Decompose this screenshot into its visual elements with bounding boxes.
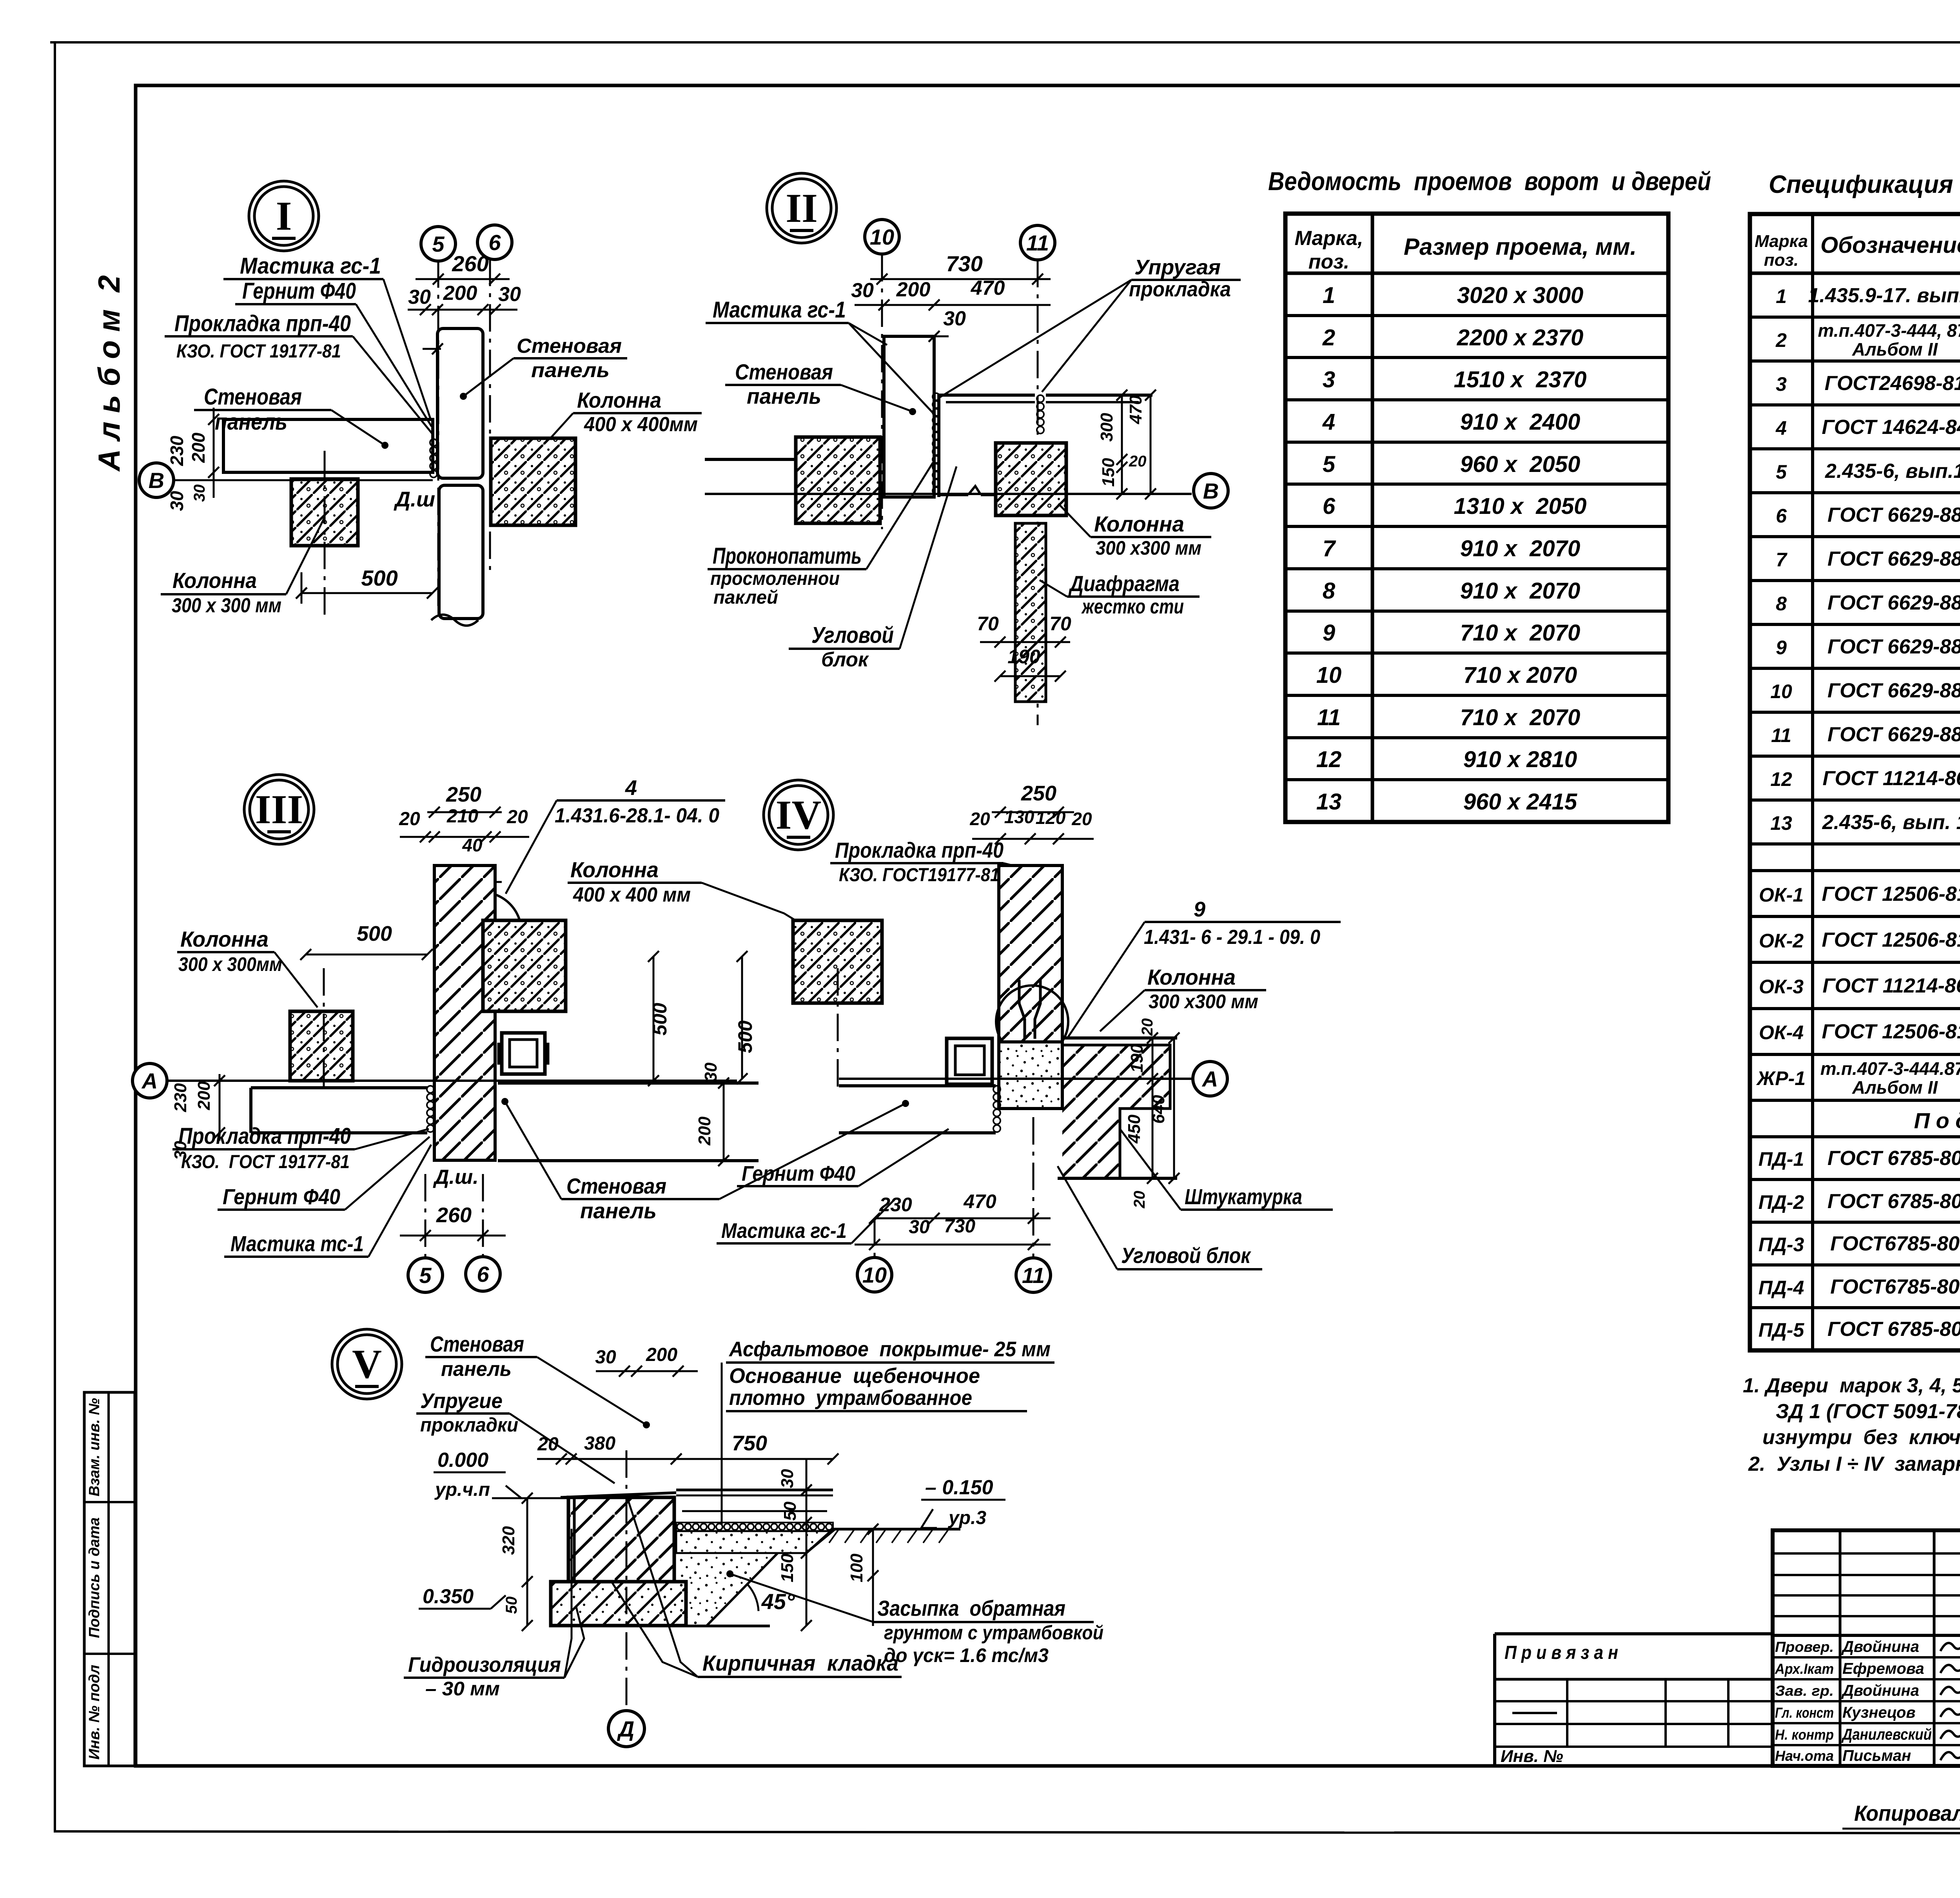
svg-text:200: 200 <box>188 432 209 463</box>
svg-text:960 х 2050: 960 х 2050 <box>1460 452 1580 477</box>
svg-text:т.п.407-3-444.87,: т.п.407-3-444.87, <box>1820 1058 1960 1079</box>
svg-text:ГОСТ 6629-88: ГОСТ 6629-88 <box>1828 723 1960 746</box>
svg-text:Стеновая: Стеновая <box>430 1332 524 1356</box>
axis 6 circle <box>477 225 512 259</box>
svg-text:70: 70 <box>1049 613 1071 635</box>
svg-text:I: I <box>276 193 292 239</box>
svg-text:ОК-2: ОК-2 <box>1759 930 1804 952</box>
svg-text:Гернит Ф40: Гернит Ф40 <box>223 1184 340 1209</box>
svg-text:13: 13 <box>1316 789 1342 815</box>
svg-text:Гернит Ф40: Гернит Ф40 <box>242 278 356 304</box>
axis 5 circle (III bottom) <box>408 1258 443 1292</box>
column 300x300 (I) <box>291 479 358 546</box>
svg-text:паклей: паклей <box>713 587 778 608</box>
ground line right (V) <box>833 1528 960 1531</box>
axis 11 line (II) <box>1037 260 1039 725</box>
svg-text:120: 120 <box>1036 807 1066 828</box>
svg-text:6: 6 <box>477 1262 489 1287</box>
ground level drop (V) <box>806 1529 833 1553</box>
svg-text:Упругие: Упругие <box>420 1389 503 1413</box>
svg-text:ГОСТ 6629-88: ГОСТ 6629-88 <box>1828 635 1960 658</box>
svg-text:Мастика гс-1: Мастика гс-1 <box>721 1219 847 1243</box>
left end dims 230/200/30 (I) <box>213 408 215 498</box>
svg-text:200: 200 <box>896 278 931 301</box>
svg-text:260: 260 <box>436 1203 472 1227</box>
svg-text:плотно утрамбованное: плотно утрамбованное <box>729 1386 972 1410</box>
wall panel horizontal (II) <box>705 458 884 461</box>
svg-text:750: 750 <box>732 1432 767 1455</box>
svg-text:ур.ч.п: ур.ч.п <box>434 1479 490 1500</box>
svg-text:В: В <box>149 468 164 493</box>
axis 10 line (IV) <box>874 1218 876 1257</box>
svg-text:ГОСТ24698-81: ГОСТ24698-81 <box>1825 372 1960 395</box>
svg-text:190: 190 <box>1007 646 1040 668</box>
svg-text:ур.3: ур.3 <box>948 1508 986 1528</box>
svg-text:П о д о к о н н ы е д о с: П о д о к о н н ы е д о с к и <box>1914 1108 1960 1133</box>
svg-text:Письман: Письман <box>1842 1747 1911 1764</box>
concrete fill below panel (IV) <box>999 1042 1062 1109</box>
wall panel horizontal left (III) <box>251 1086 427 1089</box>
svg-text:50: 50 <box>503 1597 520 1614</box>
svg-text:ПД-4: ПД-4 <box>1759 1277 1804 1299</box>
svg-text:4: 4 <box>1322 409 1335 435</box>
svg-text:П р и в я з а н: П р и в я з а н <box>1504 1642 1618 1663</box>
svg-text:Стеновая: Стеновая <box>204 384 302 410</box>
svg-text:Провер.: Провер. <box>1775 1639 1834 1655</box>
svg-text:ПД-1: ПД-1 <box>1759 1148 1804 1170</box>
svg-text:20: 20 <box>399 809 420 829</box>
node marker III <box>244 775 314 844</box>
svg-text:11: 11 <box>1026 230 1049 255</box>
svg-text:ГОСТ 12506-81: ГОСТ 12506-81 <box>1822 883 1960 905</box>
panel joint gasket (III) <box>427 1086 434 1093</box>
svg-text:грунтом с утрамбовкой: грунтом с утрамбовкой <box>884 1622 1103 1644</box>
svg-text:400 х 400 мм: 400 х 400 мм <box>573 884 691 906</box>
svg-text:20: 20 <box>537 1434 559 1455</box>
wall panel horizontal (IV) <box>839 1084 996 1087</box>
svg-text:Кузнецов: Кузнецов <box>1842 1704 1916 1721</box>
svg-text:910 х 2400: 910 х 2400 <box>1460 409 1580 435</box>
svg-text:Двойнина: Двойнина <box>1841 1638 1919 1655</box>
svg-text:50: 50 <box>780 1501 800 1521</box>
svg-text:500: 500 <box>649 1003 671 1036</box>
svg-text:500: 500 <box>734 1020 756 1053</box>
svg-text:300: 300 <box>1097 413 1116 442</box>
svg-text:Угловой блок: Угловой блок <box>1121 1243 1251 1268</box>
column 400x400 (IV) <box>793 920 882 1003</box>
svg-text:панель: панель <box>215 409 287 435</box>
svg-text:ГОСТ 11214-86: ГОСТ 11214-86 <box>1822 974 1960 997</box>
svg-text:20: 20 <box>969 809 990 829</box>
wall panel vertical (II) <box>884 336 934 497</box>
column 400x400 (III) <box>483 920 566 1011</box>
table2 subtitle Подоконные доски <box>1750 1135 1960 1138</box>
svg-text:0.350: 0.350 <box>423 1585 474 1608</box>
svg-text:панель: панель <box>580 1198 657 1223</box>
svg-text:30: 30 <box>191 484 208 502</box>
svg-text:КЗО. ГОСТ 19177-81: КЗО. ГОСТ 19177-81 <box>181 1152 350 1172</box>
wall panel horizontal right (III) <box>498 1081 759 1085</box>
svg-text:200: 200 <box>646 1345 677 1365</box>
wall panel horizontal (I) <box>223 419 433 472</box>
svg-text:5: 5 <box>432 232 445 256</box>
node marker II <box>767 173 837 243</box>
svg-text:просмоленнои: просмоленнои <box>710 568 840 589</box>
svg-text:230: 230 <box>171 1083 190 1112</box>
svg-text:10: 10 <box>862 1263 887 1287</box>
svg-text:ГОСТ 6785-80: ГОСТ 6785-80 <box>1828 1147 1960 1170</box>
svg-text:ОК-4: ОК-4 <box>1759 1022 1804 1043</box>
svg-text:Альбом II: Альбом II <box>1852 339 1938 359</box>
svg-text:1: 1 <box>1776 285 1787 307</box>
svg-text:260: 260 <box>452 251 488 276</box>
svg-text:730: 730 <box>944 1216 975 1237</box>
svg-text:730: 730 <box>946 251 982 276</box>
svg-text:Зав. гр.: Зав. гр. <box>1775 1683 1834 1699</box>
svg-text:Взам. инв. №: Взам. инв. № <box>86 1398 103 1497</box>
svg-text:200: 200 <box>443 282 477 305</box>
svg-text:210: 210 <box>446 806 478 827</box>
svg-text:11: 11 <box>1022 1263 1045 1288</box>
axis 11 circle (IV) <box>1016 1258 1051 1292</box>
svg-text:30: 30 <box>595 1347 616 1368</box>
svg-text:9: 9 <box>1194 898 1205 921</box>
svg-text:500: 500 <box>361 566 397 590</box>
svg-text:300 х 300мм: 300 х 300мм <box>178 953 282 975</box>
wall panel vertical hatched (III) <box>434 866 495 1160</box>
svg-text:Упругая: Упругая <box>1134 256 1221 279</box>
svg-text:Колонна: Колонна <box>570 857 659 882</box>
axis 5 circle <box>421 227 456 261</box>
svg-text:910 х 2070: 910 х 2070 <box>1460 536 1580 561</box>
axis 6 line <box>489 259 491 576</box>
svg-text:ПД-5: ПД-5 <box>1759 1319 1805 1341</box>
svg-text:Двойнина: Двойнина <box>1841 1682 1919 1699</box>
axis B line (I) <box>174 479 433 481</box>
svg-text:панель: панель <box>747 384 821 408</box>
svg-text:Альбом II: Альбом II <box>1852 1077 1938 1098</box>
svg-text:20: 20 <box>506 807 528 827</box>
svg-text:Колонна: Колонна <box>1147 965 1236 989</box>
panel break squiggle (I) <box>431 615 478 626</box>
svg-text:Колонна: Колонна <box>172 568 257 593</box>
svg-text:30: 30 <box>408 286 431 308</box>
caulk gasket joint (I) <box>430 439 437 446</box>
svg-text:10: 10 <box>1770 680 1792 702</box>
svg-text:30: 30 <box>778 1469 797 1488</box>
svg-text:40: 40 <box>462 835 483 855</box>
axis 11 line (IV) <box>1033 1117 1034 1257</box>
svg-text:ПД-2: ПД-2 <box>1759 1191 1804 1213</box>
svg-text:панель: панель <box>531 359 610 382</box>
svg-text:12: 12 <box>1316 747 1342 772</box>
svg-text:11: 11 <box>1771 724 1791 746</box>
svg-text:8: 8 <box>1776 593 1787 615</box>
svg-text:V: V <box>352 1341 382 1387</box>
svg-text:200: 200 <box>695 1116 714 1146</box>
svg-text:А л ь б о м 2: А л ь б о м 2 <box>92 275 126 472</box>
svg-text:А: А <box>141 1069 158 1093</box>
svg-text:5: 5 <box>419 1263 432 1288</box>
svg-text:Штукатурка: Штукатурка <box>1185 1184 1302 1209</box>
svg-text:150: 150 <box>778 1553 797 1582</box>
svg-text:20: 20 <box>1131 1191 1148 1209</box>
table2 door rows <box>1750 316 1960 319</box>
svg-text:Нач.ота: Нач.ота <box>1775 1748 1834 1764</box>
svg-text:ГОСТ 11214-86: ГОСТ 11214-86 <box>1822 767 1960 790</box>
diaphragm (II) <box>1015 523 1046 702</box>
svg-text:Засыпка обратная: Засыпка обратная <box>877 1596 1065 1620</box>
svg-text:6: 6 <box>1776 505 1787 527</box>
plaster/brick hatched corner (IV) <box>1062 1045 1170 1178</box>
embedded part circle (III) <box>442 892 521 971</box>
embedded channel symbol (IV) <box>947 1038 992 1084</box>
svg-text:2: 2 <box>1775 329 1787 351</box>
svg-text:1.431- 6 - 29.1 - 09. 0: 1.431- 6 - 29.1 - 09. 0 <box>1144 926 1320 949</box>
svg-text:30: 30 <box>851 279 874 302</box>
svg-text:ГОСТ 6629-88: ГОСТ 6629-88 <box>1828 679 1960 702</box>
svg-text:13: 13 <box>1770 812 1792 834</box>
svg-text:Н. контр: Н. контр <box>1775 1727 1834 1743</box>
corner block (II) <box>939 395 1035 497</box>
svg-text:III: III <box>255 786 303 832</box>
svg-text:ГОСТ 6785-80: ГОСТ 6785-80 <box>1828 1190 1960 1213</box>
node marker I <box>249 181 319 251</box>
svg-text:Спецификация элементов запол: Спецификация элементов заполнения проемо… <box>1769 170 1960 198</box>
svg-text:1.431.6-28.1- 04. 0: 1.431.6-28.1- 04. 0 <box>555 804 719 827</box>
svg-text:2.435-6, вып. 1: 2.435-6, вып. 1 <box>1822 811 1960 834</box>
svg-text:470: 470 <box>971 277 1005 299</box>
svg-text:30: 30 <box>909 1217 930 1238</box>
svg-text:960 х 2415: 960 х 2415 <box>1463 789 1577 815</box>
svg-text:Гернит Ф40: Гернит Ф40 <box>742 1162 855 1185</box>
corner gasket (II) <box>1037 395 1044 402</box>
axis B circle (II) <box>1194 474 1228 508</box>
svg-text:910 х 2070: 910 х 2070 <box>1460 578 1580 604</box>
svg-text:300 х300 мм: 300 х300 мм <box>1096 537 1201 559</box>
svg-text:5: 5 <box>1323 452 1336 477</box>
svg-text:910 х 2810: 910 х 2810 <box>1463 747 1577 772</box>
svg-text:Инв. № подл: Инв. № подл <box>86 1665 103 1760</box>
svg-text:470: 470 <box>1126 395 1145 425</box>
svg-text:8: 8 <box>1323 578 1336 604</box>
corner block white (IV) <box>1062 1036 1177 1040</box>
svg-text:Ефремова: Ефремова <box>1842 1660 1924 1677</box>
svg-text:блок: блок <box>821 648 869 671</box>
svg-text:300 х 300 мм: 300 х 300 мм <box>172 594 281 617</box>
axis D line (V) <box>626 1450 628 1709</box>
svg-text:КЗО. ГОСТ 19177-81: КЗО. ГОСТ 19177-81 <box>176 341 341 362</box>
svg-text:9: 9 <box>1323 620 1335 646</box>
svg-text:прокладки: прокладки <box>420 1414 518 1436</box>
svg-text:4: 4 <box>625 776 637 800</box>
svg-text:710 х 2070: 710 х 2070 <box>1460 620 1580 646</box>
svg-text:ГОСТ 6629-88: ГОСТ 6629-88 <box>1828 504 1960 526</box>
svg-text:Мастика тс-1: Мастика тс-1 <box>230 1231 364 1256</box>
svg-text:жестко сти: жестко сти <box>1081 595 1184 618</box>
axis A line (IV) <box>839 1078 1192 1080</box>
svg-text:Подпись и дата: Подпись и дата <box>86 1517 103 1638</box>
asphalt layers (V) <box>676 1489 833 1492</box>
svg-text:Колонна: Колонна <box>180 927 269 951</box>
svg-text:7: 7 <box>1323 536 1336 561</box>
svg-text:Основание щебеночное: Основание щебеночное <box>729 1364 980 1388</box>
node marker V <box>332 1329 402 1399</box>
svg-text:320: 320 <box>499 1526 518 1555</box>
svg-text:Мастика гс-1: Мастика гс-1 <box>713 297 846 323</box>
svg-text:ОК-3: ОК-3 <box>1759 976 1804 998</box>
svg-text:Гл. конст: Гл. конст <box>1775 1705 1834 1721</box>
svg-text:ГОСТ 14624-84: ГОСТ 14624-84 <box>1822 416 1960 439</box>
foundation block (V) <box>551 1582 686 1626</box>
svg-text:1: 1 <box>1323 283 1335 308</box>
svg-text:380: 380 <box>584 1433 615 1454</box>
svg-text:А: А <box>1201 1067 1218 1091</box>
axis A circle (IV) <box>1193 1062 1227 1096</box>
column 300x300 left (II) <box>796 437 880 523</box>
svg-text:ЗД 1 (ГОСТ 5091-78) и замком: ЗД 1 (ГОСТ 5091-78) и замком ЗН 1А (ГОСТ… <box>1776 1400 1960 1423</box>
svg-text:Проконопатить: Проконопатить <box>713 543 862 569</box>
svg-text:9: 9 <box>1776 637 1787 659</box>
svg-text:Прокладка прп-40: Прокладка прп-40 <box>835 838 1004 862</box>
svg-text:Прокладка прп-40: Прокладка прп-40 <box>178 1123 351 1149</box>
svg-text:250: 250 <box>1021 782 1056 805</box>
right vertical dims 30/60/150/100 (V) <box>806 1459 808 1626</box>
svg-text:Ведомость проемов ворот и д: Ведомость проемов ворот и дверей <box>1268 167 1711 196</box>
svg-text:3020 х 3000: 3020 х 3000 <box>1457 283 1584 308</box>
axis A line (III) <box>167 1080 737 1082</box>
svg-text:Гидроизоляция: Гидроизоляция <box>408 1653 561 1677</box>
column 300x300 (III) <box>290 1011 353 1081</box>
svg-text:ПД-3: ПД-3 <box>1759 1234 1804 1256</box>
svg-text:Д.ш: Д.ш <box>394 488 435 511</box>
axis 6 circle (III bottom) <box>466 1257 500 1291</box>
svg-text:6: 6 <box>488 230 501 255</box>
axis 10 circle (II) <box>865 220 899 254</box>
svg-text:250: 250 <box>446 783 481 806</box>
svg-text:Стеновая: Стеновая <box>566 1174 666 1198</box>
svg-text:ЖР-1: ЖР-1 <box>1756 1067 1806 1089</box>
svg-text:20: 20 <box>1129 453 1147 470</box>
svg-text:ОК-1: ОК-1 <box>1759 884 1804 906</box>
panel joint gasket (IV) <box>993 1086 1000 1093</box>
svg-text:150: 150 <box>1099 458 1118 487</box>
svg-text:до γск= 1.6 тс/м3: до γск= 1.6 тс/м3 <box>884 1644 1049 1666</box>
svg-text:т.п.407-3-444, 87,: т.п.407-3-444, 87, <box>1818 320 1960 341</box>
title block left attach section (Привязан) <box>1495 1632 1773 1635</box>
right dims 190/640/450/20/20 (IV) <box>1152 1038 1154 1178</box>
axis B circle (I) <box>139 463 174 497</box>
svg-text:400 х 400мм: 400 х 400мм <box>584 413 698 436</box>
floor line (V) <box>561 1493 676 1497</box>
svg-text:ГОСТ6785-80: ГОСТ6785-80 <box>1830 1276 1960 1298</box>
right dims 500/30/200 (III) <box>653 956 655 1081</box>
svg-text:В: В <box>1203 479 1219 503</box>
svg-text:IV: IV <box>776 792 822 838</box>
svg-text:230: 230 <box>167 435 187 466</box>
svg-text:Арх.Iкат: Арх.Iкат <box>1775 1661 1834 1677</box>
svg-text:панель: панель <box>441 1358 512 1381</box>
concrete stipple band (V) <box>676 1531 833 1553</box>
svg-text:710 х 2070: 710 х 2070 <box>1463 662 1577 688</box>
svg-text:Прокладка прп-40: Прокладка прп-40 <box>174 311 351 336</box>
caulk gasket (II panel) <box>933 393 940 400</box>
svg-text:изнутри без ключа.: изнутри без ключа. <box>1762 1426 1960 1449</box>
svg-text:Колонна: Колонна <box>577 388 661 412</box>
svg-text:710 х 2070: 710 х 2070 <box>1460 705 1580 730</box>
embedded channel symbol (III) <box>502 1033 545 1074</box>
svg-text:II: II <box>786 185 818 231</box>
svg-text:Данилевский: Данилевский <box>1841 1726 1932 1743</box>
svg-text:20: 20 <box>1139 1018 1156 1036</box>
svg-text:Стеновая: Стеновая <box>735 359 833 384</box>
svg-text:30: 30 <box>943 307 966 330</box>
table2 subtitle Окна <box>1750 869 1960 872</box>
svg-text:30: 30 <box>498 283 521 306</box>
axis A circle (III) <box>132 1063 167 1098</box>
svg-text:6: 6 <box>1323 494 1336 519</box>
svg-text:Колонна: Колонна <box>1094 512 1184 536</box>
title block (основная надпись) <box>1773 1530 1960 1766</box>
svg-text:130: 130 <box>1004 807 1034 827</box>
svg-text:4: 4 <box>1775 417 1787 439</box>
svg-text:КЗО. ГОСТ19177-81: КЗО. ГОСТ19177-81 <box>839 865 1000 885</box>
svg-text:ГОСТ6785-80: ГОСТ6785-80 <box>1830 1232 1960 1255</box>
svg-text:100: 100 <box>847 1553 866 1582</box>
svg-text:200: 200 <box>194 1081 214 1110</box>
column 300x300 right (II) <box>996 443 1066 515</box>
svg-text:ГОСТ 6629-88: ГОСТ 6629-88 <box>1828 592 1960 614</box>
svg-text:3: 3 <box>1776 373 1787 395</box>
wall panel vertical hatched (IV) <box>999 866 1062 1042</box>
svg-text:Инв. №: Инв. № <box>1501 1747 1563 1766</box>
svg-text:10: 10 <box>1316 662 1342 688</box>
svg-text:7: 7 <box>1776 549 1788 571</box>
svg-text:поз.: поз. <box>1308 250 1350 273</box>
axis 10 line (II) <box>881 254 883 529</box>
svg-text:30: 30 <box>167 491 187 511</box>
axis B line (II) <box>705 493 1192 495</box>
svg-text:Угловой: Угловой <box>811 622 894 648</box>
svg-text:70: 70 <box>977 613 999 635</box>
svg-text:ГОСТ 6629-88: ГОСТ 6629-88 <box>1828 548 1960 570</box>
axis D circle (V) <box>608 1711 644 1747</box>
svg-text:Размер проема, мм.: Размер проема, мм. <box>1404 234 1637 260</box>
gravel dotted band (V) <box>676 1522 833 1531</box>
svg-text:Диафрагма: Диафрагма <box>1069 571 1180 596</box>
svg-text:Марка,: Марка, <box>1295 227 1363 250</box>
column 400x400 (I) <box>491 438 575 525</box>
left vertical dims 320/50 and level 0.350 (V) <box>526 1498 528 1626</box>
svg-text:Д: Д <box>617 1717 634 1741</box>
ground hatch ticks (V) <box>829 1529 839 1543</box>
node marker IV <box>764 780 833 850</box>
svg-text:2200 х 2370: 2200 х 2370 <box>1457 325 1584 350</box>
svg-text:1.435.9-17. вып. 1: 1.435.9-17. вып. 1 <box>1808 284 1960 307</box>
axis 11 circle (II) <box>1020 225 1055 260</box>
svg-text:470: 470 <box>963 1190 996 1212</box>
wall panel vertical (I) <box>437 328 483 478</box>
svg-text:5: 5 <box>1776 461 1787 483</box>
svg-text:300 х300 мм: 300 х300 мм <box>1149 991 1258 1013</box>
svg-text:ГОСТ 6785-80: ГОСТ 6785-80 <box>1828 1318 1960 1341</box>
backfill wedge (V) <box>676 1553 778 1626</box>
wall block hatched (V) <box>568 1497 674 1582</box>
svg-text:– 30 мм: – 30 мм <box>425 1678 500 1700</box>
svg-text:1510 х 2370: 1510 х 2370 <box>1454 367 1587 392</box>
leader asphalt (V) <box>721 1363 723 1525</box>
svg-text:2.435-6, вып.1: 2.435-6, вып.1 <box>1825 460 1960 483</box>
